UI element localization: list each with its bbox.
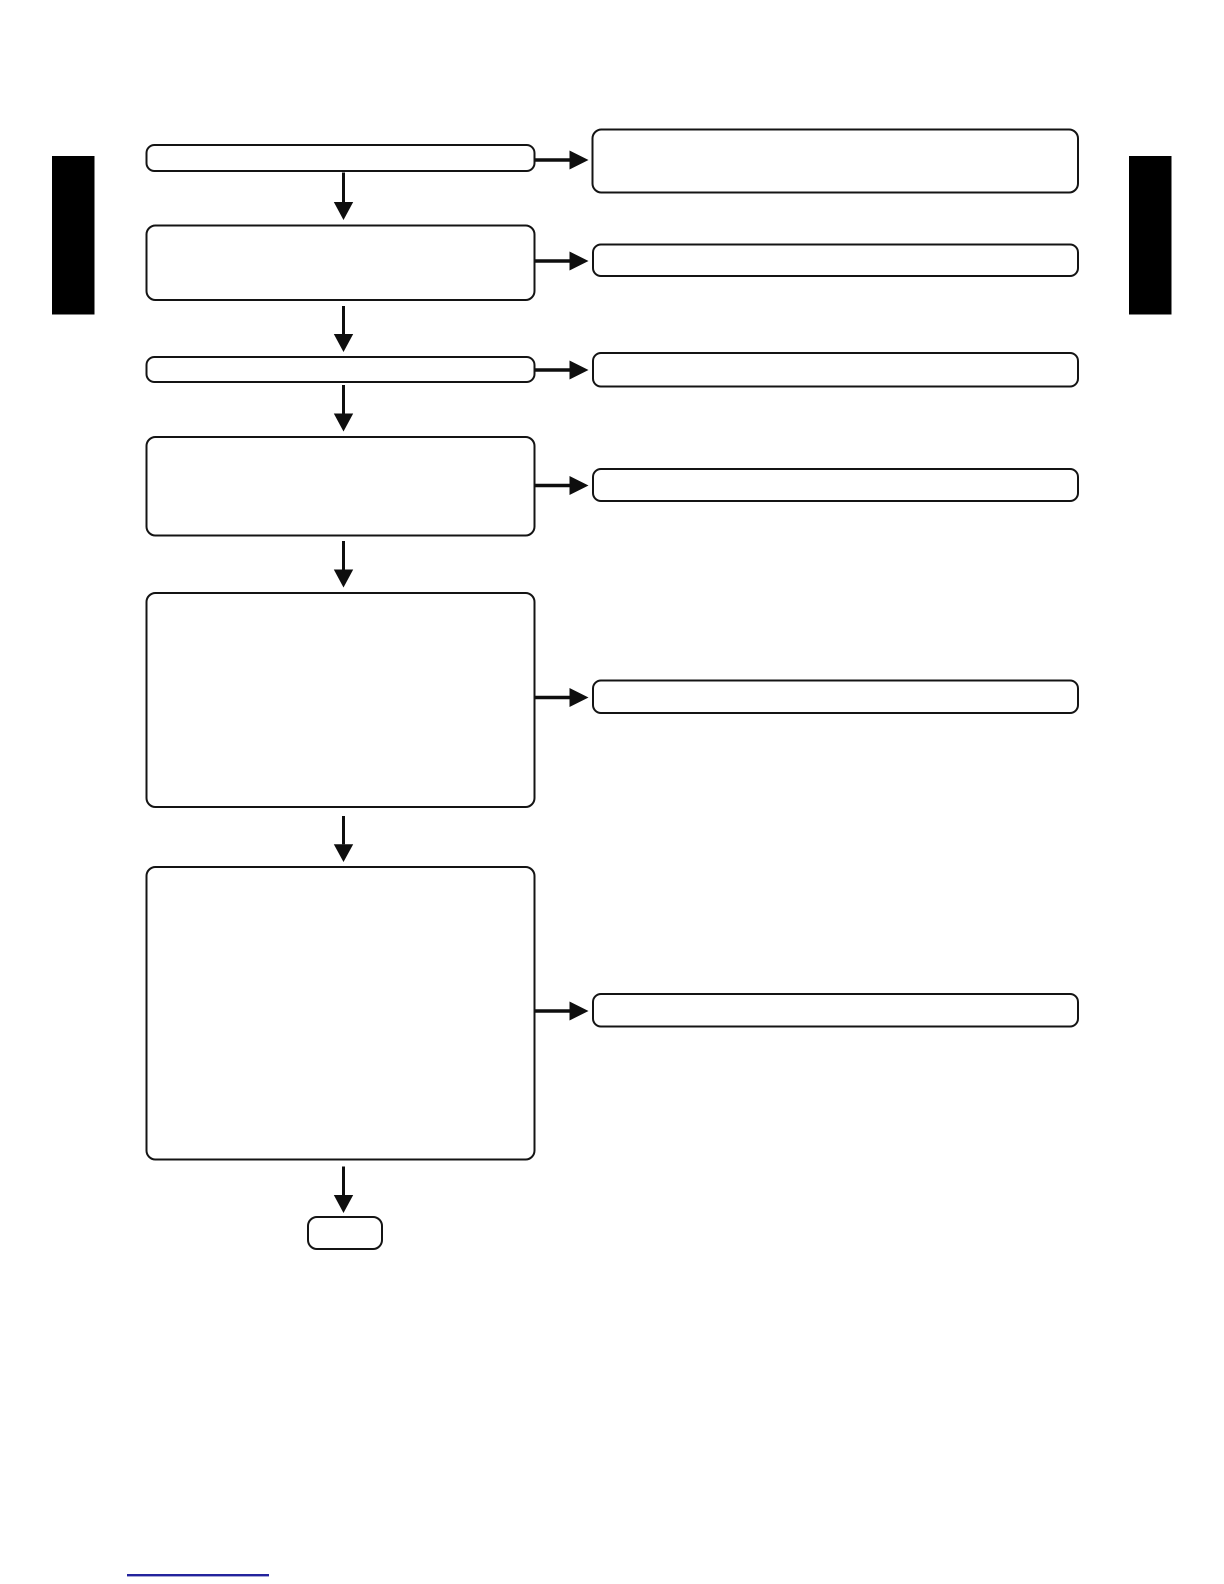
horizontal arrow D to R4 [536,476,589,495]
flowchart box B (second left box) [147,226,535,301]
horizontal arrow F to R6 [536,1002,589,1021]
horizontal arrow A to R1 [536,151,589,170]
horizontal arrow C to R3 [536,361,589,380]
arrow A to B (down) [334,173,353,221]
arrow E to F (down) [334,816,353,862]
box R5 (right column thin) [593,681,1078,714]
box R1 (right column, tall thin) [593,130,1079,193]
arrow F to G (down) [334,1167,353,1214]
horizontal arrow B to R2 [536,252,589,271]
right edge black tab [1129,156,1172,315]
arrow C to D (down) [334,385,353,432]
box R6 (right column thin) [593,994,1078,1027]
box R3 (right column thin) [593,353,1078,387]
flowchart box C (third left thin box) [147,357,535,382]
footnote blue line (bottom left) [127,1574,269,1576]
flowchart box F (sixth left largest box) [147,867,535,1160]
left edge black tab [52,156,95,315]
terminal box G (small bottom box) [308,1217,382,1249]
box R2 (right column thin) [593,245,1078,277]
flowchart box E (fifth left large box) [147,593,535,807]
arrow B to C (down) [334,306,353,352]
horizontal arrow E to R5 [536,688,589,707]
flowchart box D (fourth left box) [147,437,535,536]
flowchart box A (top thin box, left column) [147,145,535,171]
box R4 (right column thin) [593,469,1078,501]
arrow D to E (down) [334,541,353,588]
